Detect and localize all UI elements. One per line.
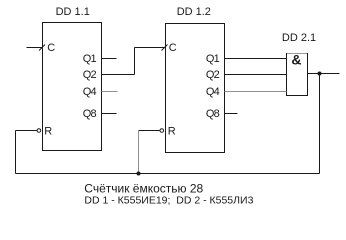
- dynamic-input slash at C of DD1.2: [162, 45, 168, 51]
- wire: Q4 stub of DD1.1: [102, 91, 118, 93]
- wire: Q2 to C2 vertical riser: [134, 48, 136, 75]
- svg-text:Q1: Q1: [206, 53, 220, 65]
- svg-text:Q8: Q8: [206, 108, 220, 120]
- svg-text:R: R: [168, 126, 176, 138]
- svg-text:Q8: Q8: [83, 108, 97, 120]
- wire: Q1 of DD1.2 to AND gate input 1: [225, 58, 287, 60]
- wire: left vertical from R of DD1.1 down to reset bus: [15, 131, 17, 174]
- wire: into C of DD1.2: [135, 47, 166, 49]
- svg-text:C: C: [169, 42, 177, 54]
- wire: Q2 of DD1.1 horizontal run: [102, 74, 135, 76]
- svg-text:DD 1.1: DD 1.1: [56, 6, 90, 18]
- wire: reset feed to R of DD1.2: [139, 130, 160, 132]
- inversion bubble at R of DD1.2: [160, 129, 164, 133]
- wire: Q8 stub of DD1.2: [225, 113, 238, 115]
- wire: feedback vertical from AND output down to reset bus: [319, 74, 321, 174]
- junction dot on reset bus below DD1.2: [137, 172, 141, 176]
- svg-text:&: &: [291, 52, 301, 68]
- wire: Q8 stub of DD1.1: [102, 113, 117, 115]
- svg-text:DD 1 - К555ИЕ19; DD 2 - К555Л: DD 1 - К555ИЕ19; DD 2 - К555ЛИ3: [84, 194, 253, 206]
- wire: clock input to C of DD1.1: [27, 47, 43, 49]
- svg-text:Q4: Q4: [83, 86, 97, 98]
- svg-text:Q4: Q4: [206, 86, 220, 98]
- junction dot on AND output: [318, 72, 322, 76]
- wire: AND gate output: [308, 73, 340, 75]
- wire: vertical from R of DD1.2 down to reset bus: [138, 131, 140, 174]
- svg-text:R: R: [44, 126, 52, 138]
- wire: Q1 stub of DD1.1: [102, 58, 117, 60]
- wire: bottom reset bus: [16, 173, 320, 175]
- counter U1 (DD1.1) body: [43, 23, 102, 151]
- svg-text:Q2: Q2: [83, 69, 97, 81]
- wire: reset feed to R of DD1.1: [16, 130, 37, 132]
- grey top edge of DD2.1 body: [287, 53, 307, 55]
- AND gate U3 (DD2.1) body: [287, 54, 308, 96]
- svg-text:Q2: Q2: [206, 69, 220, 81]
- counter U2 (DD1.2) body: [166, 24, 225, 153]
- svg-text:Q1: Q1: [83, 53, 97, 65]
- wire: Q4 of DD1.2 to AND gate input 3: [225, 91, 287, 93]
- svg-text:DD 1.2: DD 1.2: [177, 6, 211, 18]
- dynamic-input slash at C of DD1.1: [39, 45, 45, 51]
- inversion bubble at R of DD1.1: [37, 129, 41, 133]
- svg-text:C: C: [47, 42, 55, 54]
- svg-text:DD 2.1: DD 2.1: [282, 32, 316, 44]
- wire: Q2 of DD1.2 to AND gate input 2: [225, 74, 287, 76]
